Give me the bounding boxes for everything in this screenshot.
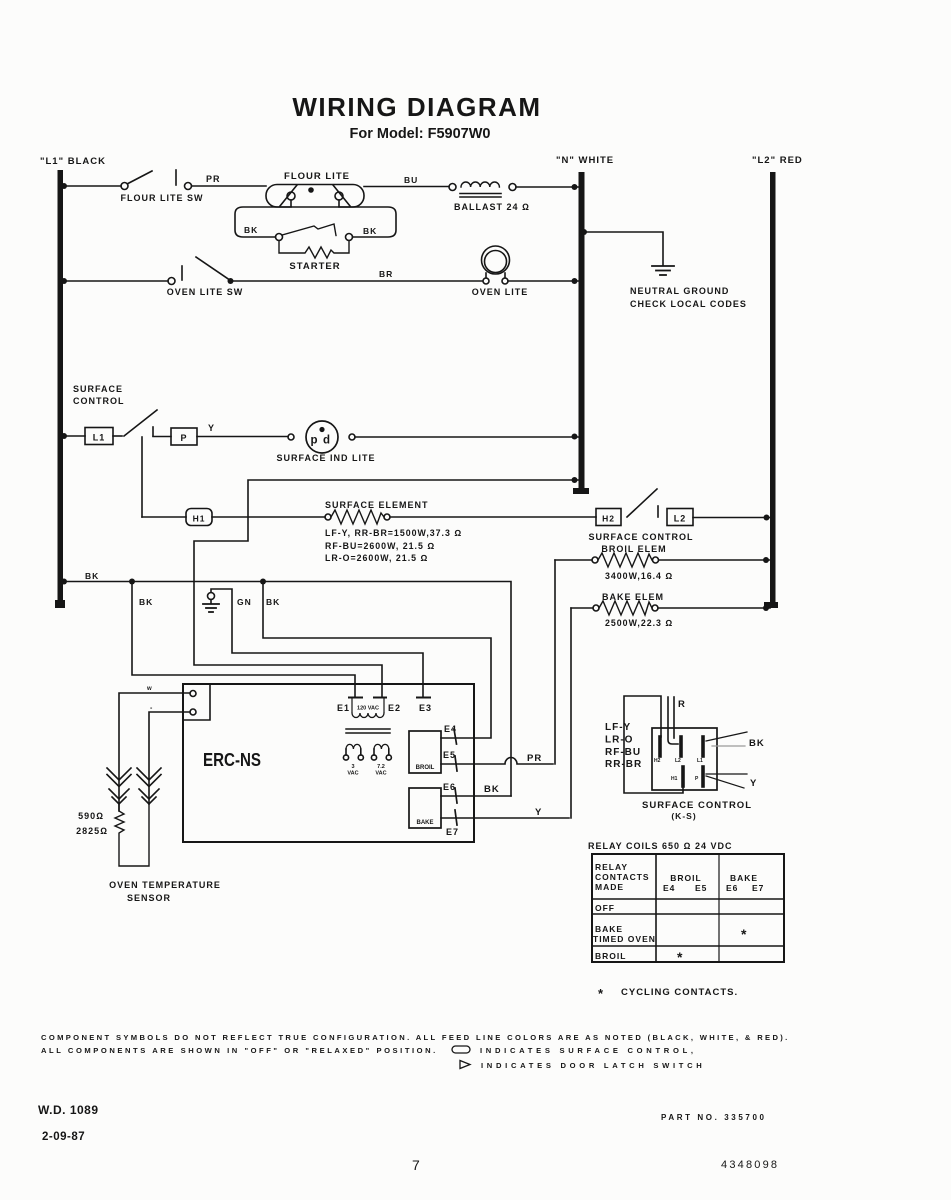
svg-text:SURFACE IND LITE: SURFACE IND LITE	[276, 453, 375, 463]
wire BK to E4	[263, 582, 491, 739]
terminal E7 wire Y	[441, 817, 569, 819]
terminal E4	[454, 729, 457, 744]
svg-text:CONTACTS: CONTACTS	[595, 872, 650, 882]
svg-text:BROIL ELEM: BROIL ELEM	[601, 544, 666, 554]
lamp FLOUR LITE	[266, 171, 364, 207]
wire element to H2	[390, 516, 596, 518]
wire N bus to ERC E2	[194, 480, 578, 697]
svg-text:E3: E3	[419, 703, 432, 713]
svg-text:2500W,22.3 Ω: 2500W,22.3 Ω	[605, 618, 673, 628]
pin L1	[701, 737, 705, 756]
switch FLOUR LITE SW	[121, 170, 204, 203]
svg-text:BK: BK	[749, 738, 765, 749]
ground neutral	[652, 266, 674, 275]
svg-text:RELAY: RELAY	[595, 862, 628, 872]
svg-text:P: P	[695, 776, 699, 782]
terminal E6 wire BK	[441, 795, 511, 797]
wire L1 to oven lite sw	[63, 280, 168, 282]
svg-text:OVEN TEMPERATURE: OVEN TEMPERATURE	[109, 880, 221, 890]
svg-text:E2: E2	[388, 703, 401, 713]
svg-text:P: P	[180, 433, 187, 443]
svg-text:RR-BR: RR-BR	[605, 759, 642, 770]
sensor terminal block	[183, 684, 210, 720]
legend door latch symbol	[460, 1061, 470, 1069]
svg-text:7: 7	[412, 1157, 420, 1173]
wire loop H1 to H2	[624, 696, 683, 793]
terminal box L1	[85, 428, 113, 445]
svg-text:RF-BU=2600W, 21.5 Ω: RF-BU=2600W, 21.5 Ω	[325, 541, 435, 551]
svg-text:E1: E1	[337, 703, 350, 713]
svg-text:E6: E6	[443, 782, 456, 792]
svg-text:E7: E7	[446, 827, 459, 837]
svg-text:2-09-87: 2-09-87	[42, 1131, 85, 1143]
svg-text:d: d	[323, 435, 330, 447]
pin H1	[681, 767, 685, 786]
svg-text:OVEN LITE: OVEN LITE	[472, 287, 529, 297]
svg-text:H1: H1	[671, 776, 678, 782]
svg-text:"L2" RED: "L2" RED	[752, 155, 803, 166]
wire Y	[197, 436, 288, 438]
svg-text:4348098: 4348098	[721, 1159, 779, 1171]
svg-text:E4: E4	[663, 883, 675, 893]
ground chassis GN to E3	[203, 589, 423, 697]
svg-text:BROIL: BROIL	[595, 951, 626, 961]
terminal box H1	[186, 509, 212, 526]
svg-text:ALL COMPONENTS ARE SHOWN IN "O: ALL COMPONENTS ARE SHOWN IN "OFF" OR "RE…	[41, 1046, 438, 1055]
svg-text:BAKE ELEM: BAKE ELEM	[602, 592, 664, 602]
svg-text:NEUTRAL GROUND: NEUTRAL GROUND	[630, 286, 729, 296]
lamp SURFACE IND LITE	[276, 421, 375, 463]
svg-text:H2: H2	[654, 758, 661, 764]
svg-text:BAKE: BAKE	[730, 873, 758, 883]
svg-text:STARTER: STARTER	[289, 261, 340, 272]
starter loop wires	[235, 207, 291, 237]
svg-text:BAKE: BAKE	[595, 924, 623, 934]
wire BK feed row	[63, 582, 511, 797]
wire PR riser broil to E5	[554, 560, 556, 764]
svg-text:BK: BK	[484, 784, 500, 795]
svg-text:"L1" BLACK: "L1" BLACK	[40, 156, 106, 167]
wire L2 box to L2 bus	[693, 517, 770, 519]
resistor BAKE ELEM	[571, 592, 770, 628]
svg-text:SURFACE CONTROL: SURFACE CONTROL	[589, 532, 694, 542]
bus L1 black	[40, 156, 106, 608]
svg-text:BK: BK	[363, 226, 377, 236]
svg-text:"N" WHITE: "N" WHITE	[556, 155, 614, 166]
pin H2	[658, 737, 662, 756]
svg-text:L1: L1	[93, 433, 106, 443]
svg-text:E4: E4	[444, 724, 457, 734]
wire L1 bus to L1 box	[63, 435, 85, 437]
terminal box P	[152, 427, 154, 436]
svg-text:E7: E7	[752, 883, 764, 893]
transformer T1 primary 120VAC	[337, 698, 401, 734]
svg-text:PR: PR	[206, 174, 221, 184]
svg-text:120 VAC: 120 VAC	[357, 706, 379, 712]
svg-text:BALLAST 24 Ω: BALLAST 24 Ω	[454, 202, 530, 212]
wire BK to E1	[132, 582, 355, 698]
resistor SURFACE ELEMENT	[325, 500, 462, 563]
svg-text:SURFACE: SURFACE	[73, 384, 123, 394]
wire ind lite to N	[355, 436, 578, 438]
svg-text:Y: Y	[750, 778, 757, 789]
wire oven lite to N	[508, 280, 578, 282]
svg-text:3400W,16.4 Ω: 3400W,16.4 Ω	[605, 571, 673, 581]
svg-text:VAC: VAC	[347, 771, 358, 777]
svg-text:590Ω: 590Ω	[78, 811, 104, 821]
svg-text:L2: L2	[675, 758, 681, 764]
svg-text:ERC-NS: ERC-NS	[203, 749, 261, 770]
switch block SURFACE CONTROL K-S	[652, 728, 717, 790]
svg-text:OFF: OFF	[595, 903, 615, 913]
bus L2 red	[752, 155, 803, 608]
svg-text:RELAY COILS 650 Ω 24 VDC: RELAY COILS 650 Ω 24 VDC	[588, 841, 732, 851]
wire L1 to fluor lite sw	[63, 185, 121, 187]
svg-text:CHECK LOCAL CODES: CHECK LOCAL CODES	[630, 299, 747, 309]
resistor BROIL ELEM	[555, 544, 770, 581]
wire BK callout	[706, 732, 747, 741]
inductor BALLAST 24 ohm	[449, 182, 530, 212]
svg-text:TIMED OVEN: TIMED OVEN	[593, 934, 656, 944]
wire BR	[233, 280, 482, 282]
terminal box L2	[667, 509, 693, 526]
lamp OVEN LITE	[472, 246, 529, 297]
transformer secondaries	[343, 744, 391, 776]
svg-text:SURFACE ELEMENT: SURFACE ELEMENT	[325, 500, 429, 510]
svg-text:Y: Y	[535, 807, 542, 818]
svg-text:Y: Y	[208, 423, 215, 433]
legend surface control symbol	[452, 1046, 470, 1053]
svg-text:E5: E5	[443, 750, 456, 760]
svg-text:BROIL: BROIL	[670, 873, 701, 883]
svg-text:H1: H1	[193, 514, 206, 524]
svg-text:For Model: F5907W0: For Model: F5907W0	[350, 126, 491, 142]
connector chevrons left	[107, 768, 131, 804]
svg-text:LR-O: LR-O	[605, 735, 633, 746]
wire neutral ground	[584, 232, 663, 265]
svg-text:BK: BK	[139, 597, 153, 607]
pin P	[701, 767, 705, 786]
terminal E3	[417, 697, 430, 699]
wire down to H1	[141, 437, 143, 517]
svg-text:*: *	[741, 926, 747, 942]
svg-text:3: 3	[351, 764, 354, 770]
svg-text:BAKE: BAKE	[416, 820, 433, 826]
svg-text:R: R	[678, 699, 686, 710]
svg-text:LF-Y: LF-Y	[605, 722, 631, 733]
svg-text:w: w	[146, 686, 153, 692]
switch surface control	[113, 435, 122, 437]
svg-text:VAC: VAC	[375, 771, 386, 777]
svg-text:(K-S): (K-S)	[671, 811, 696, 821]
svg-text:p: p	[310, 435, 317, 447]
svg-text:OVEN LITE SW: OVEN LITE SW	[167, 287, 244, 297]
wire Y riser bake to E7	[570, 608, 572, 818]
starter STARTER	[276, 224, 353, 272]
svg-text:BU: BU	[404, 175, 418, 185]
svg-text:L2: L2	[674, 514, 687, 524]
svg-text:E6: E6	[726, 883, 738, 893]
svg-text:E5: E5	[695, 883, 707, 893]
svg-text:COMPONENT SYMBOLS DO NOT REFLE: COMPONENT SYMBOLS DO NOT REFLECT TRUE CO…	[41, 1033, 790, 1042]
wire PR	[192, 185, 267, 187]
svg-text:BK: BK	[244, 225, 258, 235]
switch OVEN LITE SW	[167, 257, 244, 297]
wire H1 row	[142, 516, 186, 518]
svg-text:MADE: MADE	[595, 882, 624, 892]
svg-text:SENSOR: SENSOR	[127, 893, 171, 903]
wire sensor leads	[119, 693, 190, 811]
svg-text:*: *	[677, 949, 683, 965]
relay BAKE	[409, 788, 441, 828]
svg-text:2825Ω: 2825Ω	[76, 826, 108, 836]
svg-text:BROIL: BROIL	[416, 765, 435, 771]
svg-text:FLOUR LITE SW: FLOUR LITE SW	[121, 193, 204, 203]
pin L2	[679, 737, 683, 756]
svg-text:FLOUR LITE: FLOUR LITE	[284, 171, 350, 182]
svg-text:RF-BU: RF-BU	[605, 747, 641, 758]
resistor sensor element	[115, 804, 149, 866]
svg-text:-: -	[150, 705, 153, 712]
bus N white	[556, 155, 614, 494]
wire Y callout	[706, 773, 747, 775]
wire to surface element	[212, 516, 325, 518]
svg-text:L1: L1	[697, 758, 703, 764]
svg-text:INDICATES DOOR LATCH SWITCH: INDICATES DOOR LATCH SWITCH	[481, 1061, 705, 1070]
svg-text:LR-O=2600W, 21.5 Ω: LR-O=2600W, 21.5 Ω	[325, 553, 428, 563]
svg-text:PR: PR	[527, 753, 542, 764]
svg-text:INDICATES SURFACE CONTROL,: INDICATES SURFACE CONTROL,	[480, 1046, 697, 1055]
terminal box H2	[596, 509, 621, 526]
relay BROIL	[409, 731, 441, 773]
svg-text:CONTROL: CONTROL	[73, 396, 125, 406]
svg-text:CYCLING CONTACTS.: CYCLING CONTACTS.	[621, 987, 738, 998]
svg-text:W.D. 1089: W.D. 1089	[38, 1103, 99, 1117]
terminal E5 wire PR	[441, 758, 553, 764]
svg-text:WIRING DIAGRAM: WIRING DIAGRAM	[292, 92, 541, 122]
svg-text:H2: H2	[602, 514, 615, 524]
wire R to L2 pin	[668, 697, 678, 744]
svg-text:7.2: 7.2	[377, 764, 385, 770]
svg-text:SURFACE CONTROL: SURFACE CONTROL	[642, 800, 752, 811]
svg-text:*: *	[598, 986, 604, 1001]
svg-text:PART NO. 335700: PART NO. 335700	[661, 1113, 767, 1122]
svg-text:LF-Y, RR-BR=1500W,37.3 Ω: LF-Y, RR-BR=1500W,37.3 Ω	[325, 528, 462, 538]
svg-text:GN: GN	[237, 597, 252, 607]
control board ERC-NS	[183, 684, 474, 842]
svg-text:BR: BR	[379, 269, 393, 279]
wire BU	[364, 186, 449, 188]
wire ballast to N	[516, 186, 578, 188]
connector chevrons right	[137, 768, 161, 804]
svg-text:BK: BK	[266, 597, 280, 607]
svg-text:BK: BK	[85, 571, 99, 581]
switch surface control right	[627, 489, 657, 517]
